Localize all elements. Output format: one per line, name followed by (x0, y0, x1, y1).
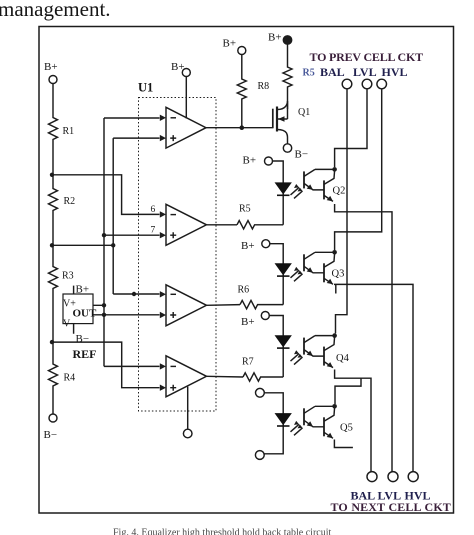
svg-text:LVL: LVL (353, 65, 377, 79)
svg-text:B−: B− (44, 429, 58, 441)
svg-text:B+: B+ (76, 284, 90, 296)
svg-text:Q1: Q1 (298, 107, 310, 118)
svg-text:B+: B+ (241, 240, 255, 252)
svg-text:Q3: Q3 (332, 269, 345, 280)
svg-text:B+: B+ (243, 155, 257, 167)
svg-text:BAL: BAL (320, 65, 345, 79)
svg-text:B+: B+ (223, 38, 237, 50)
svg-text:R1: R1 (63, 126, 75, 137)
svg-text:R6: R6 (238, 285, 250, 296)
svg-text:TO PREV CELL CKT: TO PREV CELL CKT (310, 50, 424, 64)
svg-text:V−: V− (63, 319, 76, 330)
svg-text:B−: B− (295, 149, 309, 161)
svg-text:B+: B+ (171, 61, 185, 73)
svg-text:R2: R2 (64, 196, 76, 207)
svg-text:R3: R3 (62, 271, 74, 282)
svg-text:REF: REF (73, 347, 97, 361)
svg-text:Q5: Q5 (340, 423, 353, 434)
svg-text:R5: R5 (239, 204, 251, 215)
svg-text:TO NEXT CELL CKT: TO NEXT CELL CKT (331, 500, 451, 514)
svg-text:B−: B− (76, 333, 90, 345)
svg-text:OUT: OUT (73, 308, 98, 320)
svg-text:R4: R4 (64, 373, 76, 384)
svg-text:Q2: Q2 (333, 186, 346, 197)
svg-text:B+: B+ (241, 316, 255, 328)
svg-text:6: 6 (151, 205, 156, 215)
svg-text:R8: R8 (258, 81, 270, 92)
svg-text:HVL: HVL (382, 65, 408, 79)
svg-text:B+: B+ (268, 32, 282, 44)
svg-text:R5: R5 (303, 68, 315, 79)
svg-text:B+: B+ (44, 61, 58, 73)
svg-text:R7: R7 (242, 357, 254, 368)
svg-text:management.: management. (0, 0, 111, 21)
svg-text:U1: U1 (138, 81, 153, 95)
svg-text:7: 7 (151, 226, 156, 236)
svg-text:Fig. 4. Equalizer high thresho: Fig. 4. Equalizer high threshold hold ba… (113, 528, 331, 535)
svg-text:Q4: Q4 (336, 353, 350, 364)
